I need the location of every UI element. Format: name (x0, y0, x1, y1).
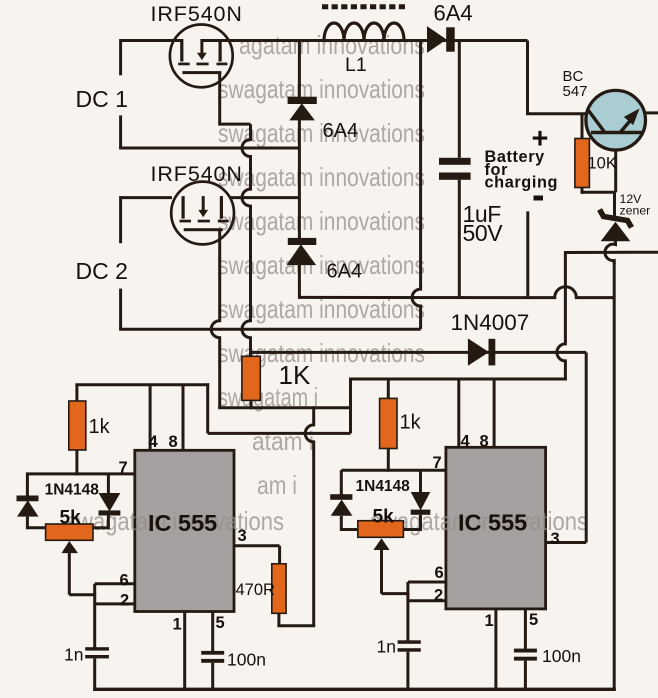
svg-text:8: 8 (169, 433, 178, 451)
svg-text:1: 1 (173, 616, 182, 634)
svg-text:4: 4 (461, 432, 471, 450)
svg-text:6A4: 6A4 (434, 1, 473, 26)
svg-text:2: 2 (120, 592, 129, 610)
svg-text:IRF540N: IRF540N (151, 2, 243, 26)
svg-text:1N4007: 1N4007 (451, 310, 530, 335)
svg-text:1N4148: 1N4148 (45, 481, 100, 498)
svg-text:8: 8 (480, 432, 489, 450)
svg-text:547: 547 (563, 83, 588, 100)
svg-text:6: 6 (435, 564, 444, 582)
svg-text:3: 3 (551, 530, 560, 548)
svg-text:1N4148: 1N4148 (356, 478, 411, 495)
svg-text:IRF540N: IRF540N (151, 162, 243, 186)
svg-text:zener: zener (620, 204, 651, 218)
svg-text:1n: 1n (64, 645, 83, 665)
svg-text:L1: L1 (345, 54, 367, 76)
svg-text:DC 2: DC 2 (76, 258, 128, 284)
svg-text:1n: 1n (377, 637, 396, 657)
svg-text:am i: am i (257, 470, 297, 500)
svg-text:IC 555: IC 555 (458, 510, 527, 536)
svg-text:3: 3 (238, 527, 247, 545)
svg-text:6A4: 6A4 (323, 120, 359, 142)
svg-text:100n: 100n (542, 646, 581, 666)
svg-text:5: 5 (216, 614, 225, 632)
svg-text:agatam innovations: agatam innovations (239, 30, 425, 60)
svg-text:IC 555: IC 555 (148, 510, 217, 536)
svg-text:4: 4 (149, 433, 159, 451)
svg-text:1k: 1k (89, 416, 111, 438)
svg-text:6A4: 6A4 (327, 261, 363, 283)
svg-text:5k: 5k (60, 508, 82, 529)
svg-text:50V: 50V (463, 220, 504, 246)
svg-text:5: 5 (529, 611, 538, 629)
svg-text:DC 1: DC 1 (76, 86, 128, 112)
svg-text:100n: 100n (227, 650, 266, 670)
svg-text:470R: 470R (236, 581, 276, 599)
svg-text:7: 7 (119, 459, 128, 477)
svg-text:1K: 1K (279, 360, 311, 390)
svg-text:2: 2 (434, 587, 443, 605)
svg-text:7: 7 (433, 454, 442, 472)
svg-text:5k: 5k (373, 507, 395, 528)
svg-text:swagatam innovations: swagatam innovations (218, 74, 425, 104)
svg-text:charging: charging (485, 174, 559, 192)
svg-text:10K: 10K (588, 154, 617, 172)
svg-text:6: 6 (120, 572, 129, 590)
svg-text:1: 1 (485, 612, 494, 630)
svg-text:1k: 1k (400, 412, 422, 434)
